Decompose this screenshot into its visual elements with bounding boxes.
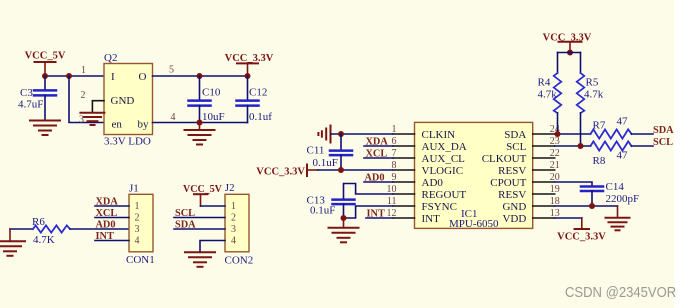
svg-text:0.1uF: 0.1uF xyxy=(313,157,338,169)
svg-text:0.1uf: 0.1uf xyxy=(249,111,272,123)
node junction C12 top xyxy=(245,73,251,79)
svg-text:en: en xyxy=(112,118,123,130)
svg-text:INT: INT xyxy=(422,213,441,225)
node junction at pullup split xyxy=(567,50,573,56)
svg-text:XDA: XDA xyxy=(366,136,389,147)
svg-text:R6: R6 xyxy=(32,216,45,228)
wire + net label SDA (J2-3) xyxy=(174,228,225,230)
svg-text:2200pF: 2200pF xyxy=(606,193,640,205)
resistor R4 xyxy=(538,53,562,135)
ground at R6 xyxy=(0,229,25,256)
IC pin numbers left xyxy=(387,124,397,219)
svg-text:3: 3 xyxy=(79,114,84,125)
svg-text:J2: J2 xyxy=(225,182,235,194)
svg-text:CLKOUT: CLKOUT xyxy=(482,153,527,165)
power symbol VCC_5V (top-left) xyxy=(35,62,56,76)
svg-text:C11: C11 xyxy=(307,144,325,156)
svg-text:VCC_3.3V: VCC_3.3V xyxy=(256,166,305,177)
svg-text:AUX_DA: AUX_DA xyxy=(422,141,467,153)
svg-text:4: 4 xyxy=(231,235,236,246)
svg-text:J1: J1 xyxy=(129,182,139,194)
svg-text:AD0: AD0 xyxy=(422,177,444,189)
power symbol VCC_3.3V (top right) xyxy=(559,42,582,53)
power symbol VCC_3.3V (below VDD) xyxy=(575,218,590,229)
svg-text:9: 9 xyxy=(392,172,397,183)
svg-text:6: 6 xyxy=(392,136,397,147)
svg-text:RESV: RESV xyxy=(498,189,526,201)
svg-text:4: 4 xyxy=(171,112,176,123)
capacitor C12 xyxy=(237,76,273,123)
resistor R5 xyxy=(577,53,604,147)
node junction at C3 xyxy=(42,73,48,79)
wire VCC_5V to Q2 pin1 xyxy=(45,75,104,77)
svg-text:4.7k: 4.7k xyxy=(538,89,558,101)
svg-text:19: 19 xyxy=(550,184,560,195)
svg-text:Q2: Q2 xyxy=(104,52,117,64)
svg-text:RESV: RESV xyxy=(498,165,526,177)
wire + net label INT (J1-4) xyxy=(95,240,129,242)
connector J1 xyxy=(129,194,153,252)
svg-text:SCL: SCL xyxy=(175,208,195,219)
svg-text:22: 22 xyxy=(550,148,560,159)
svg-text:O: O xyxy=(139,71,147,83)
svg-text:CON1: CON1 xyxy=(126,254,155,266)
svg-text:2: 2 xyxy=(81,90,86,101)
ground under C13 xyxy=(329,218,359,242)
svg-text:C12: C12 xyxy=(249,87,267,99)
svg-text:C10: C10 xyxy=(202,87,221,99)
capacitor C13 xyxy=(307,194,355,218)
svg-text:MPU-6050: MPU-6050 xyxy=(449,218,499,230)
svg-text:1: 1 xyxy=(231,201,236,212)
svg-text:47: 47 xyxy=(617,149,629,161)
pin Q2-2 GND stub xyxy=(92,101,104,113)
svg-text:12: 12 xyxy=(387,208,397,219)
wire GND row xyxy=(555,205,618,207)
node junction C11 top xyxy=(338,131,344,137)
svg-text:3: 3 xyxy=(135,224,140,235)
IC pin names left xyxy=(422,129,467,225)
svg-text:XDA: XDA xyxy=(96,196,119,207)
svg-text:2: 2 xyxy=(135,212,140,223)
IC pin stubs left xyxy=(393,134,415,218)
svg-text:C14: C14 xyxy=(606,181,625,193)
svg-text:3: 3 xyxy=(231,224,236,235)
svg-text:GND: GND xyxy=(111,95,135,107)
wire VDD row xyxy=(555,217,582,219)
wire SCL row xyxy=(555,145,591,147)
svg-text:10uF: 10uF xyxy=(202,111,225,123)
svg-text:18: 18 xyxy=(550,196,560,207)
svg-text:20: 20 xyxy=(550,172,560,183)
svg-text:C3: C3 xyxy=(20,87,33,99)
node junction C13 bottom xyxy=(341,215,347,221)
wire CPOUT to C14 xyxy=(555,182,592,186)
wire + net label INT (INT) xyxy=(366,217,393,219)
power symbol VCC_3.3V (above C12) xyxy=(237,63,258,76)
svg-text:XCL: XCL xyxy=(366,148,388,159)
wire + net label XDA (AUX_DA) xyxy=(364,145,393,147)
ground at J2 xyxy=(185,252,215,266)
svg-text:I: I xyxy=(111,71,115,83)
svg-text:11: 11 xyxy=(387,196,397,207)
node junction C11 bottom xyxy=(338,167,344,173)
wire bottom rail (by / caps) xyxy=(153,122,248,124)
wire R6 to J1 pin3 xyxy=(70,228,129,230)
svg-text:INT: INT xyxy=(367,208,385,219)
svg-text:1: 1 xyxy=(392,124,397,135)
svg-text:4.7k: 4.7k xyxy=(584,89,604,101)
svg-text:AD0: AD0 xyxy=(96,219,116,230)
svg-text:GND: GND xyxy=(502,201,526,213)
ground under C3 xyxy=(30,121,60,136)
resistor R8 xyxy=(591,141,632,166)
resistor R7 xyxy=(591,116,632,139)
svg-text:4.7uF: 4.7uF xyxy=(18,99,43,111)
wire FSYNC hook xyxy=(344,206,394,218)
svg-text:7: 7 xyxy=(392,148,397,159)
wire to SCL label xyxy=(632,145,654,147)
power symbol VCC_5V (at J2) xyxy=(194,194,208,206)
wire + net label SCL (J2-2) xyxy=(174,217,225,219)
node junction at en branch xyxy=(66,73,72,79)
wire J2-4 to ground xyxy=(200,241,225,253)
svg-text:R4: R4 xyxy=(538,77,551,89)
ground under C10 xyxy=(185,123,215,145)
node junction R4/SDA xyxy=(555,131,561,137)
wire Q2 output rail xyxy=(153,75,248,77)
svg-text:VCC_3.3V: VCC_3.3V xyxy=(225,53,274,64)
svg-text:1: 1 xyxy=(81,65,86,76)
node junction R5/SCL xyxy=(578,143,584,149)
IC pin numbers right xyxy=(550,124,560,219)
svg-text:0.1uF: 0.1uF xyxy=(310,205,335,217)
wire pullup crossbar xyxy=(558,52,581,54)
ground at Q2 pin2 xyxy=(80,113,104,125)
ground at GND row xyxy=(606,206,630,230)
ground (rotated) at CLKIN xyxy=(318,126,330,143)
svg-text:VCC_3.3V: VCC_3.3V xyxy=(543,32,592,43)
node junction C14/GND xyxy=(589,203,595,209)
wire to SDA label xyxy=(632,133,654,135)
capacitor C10 xyxy=(189,76,225,123)
capacitor C3 xyxy=(18,76,56,120)
svg-text:13: 13 xyxy=(550,208,560,219)
svg-text:4: 4 xyxy=(135,235,140,246)
wire en branch xyxy=(69,76,104,123)
wire CLKIN row xyxy=(331,133,394,135)
wire + net label XCL (J1-2) xyxy=(95,217,129,219)
svg-text:VDD: VDD xyxy=(502,213,526,225)
regulator Q2 xyxy=(104,64,153,135)
svg-text:SCL: SCL xyxy=(653,137,673,148)
svg-text:R8: R8 xyxy=(593,155,606,167)
wire + net label XCL (AUX_CL) xyxy=(364,157,393,159)
wire + net label AD0 (AD0) xyxy=(364,181,393,183)
svg-text:4.7K: 4.7K xyxy=(33,234,55,246)
svg-text:FSYNC: FSYNC xyxy=(422,201,457,213)
svg-text:AUX_CL: AUX_CL xyxy=(422,153,466,165)
svg-text:VCC_3.3V: VCC_3.3V xyxy=(557,232,606,243)
svg-text:CPOUT: CPOUT xyxy=(490,177,526,189)
svg-text:2: 2 xyxy=(231,212,236,223)
capacitor C14 xyxy=(581,181,639,206)
svg-text:SCL: SCL xyxy=(506,141,526,153)
svg-text:CLKIN: CLKIN xyxy=(422,129,456,141)
node junction C10 top xyxy=(197,73,203,79)
node junction C10 bottom xyxy=(197,120,203,126)
svg-text:SDA: SDA xyxy=(504,129,526,141)
wire SDA row xyxy=(555,133,591,135)
svg-text:47: 47 xyxy=(617,116,629,128)
svg-text:XCL: XCL xyxy=(96,208,118,219)
svg-text:VCC_5V: VCC_5V xyxy=(25,51,66,62)
svg-text:3.3V LDO: 3.3V LDO xyxy=(104,136,151,148)
resistor R6 xyxy=(10,216,70,246)
svg-text:10: 10 xyxy=(387,184,397,195)
IC IC1 MPU-6050 xyxy=(415,122,533,228)
capacitor C11 xyxy=(307,134,353,170)
svg-text:SDA: SDA xyxy=(175,219,196,230)
power symbol VCC_3.3V (left, at VLOGIC) xyxy=(307,165,318,177)
svg-text:AD0: AD0 xyxy=(365,172,385,183)
svg-text:VLOGIC: VLOGIC xyxy=(422,165,464,177)
svg-text:5: 5 xyxy=(169,65,174,76)
wire REGOUT hook xyxy=(344,184,394,200)
svg-text:REGOUT: REGOUT xyxy=(422,189,467,201)
svg-text:1: 1 xyxy=(135,201,140,212)
svg-text:8: 8 xyxy=(392,160,397,171)
IC pin stubs right xyxy=(533,134,555,218)
wire VLOGIC row xyxy=(318,169,393,171)
IC pin names right xyxy=(482,129,527,225)
svg-text:INT: INT xyxy=(96,231,114,242)
svg-text:23: 23 xyxy=(550,136,560,147)
svg-text:R7: R7 xyxy=(593,119,606,131)
wire VCC to J2-1 xyxy=(201,205,226,207)
svg-text:CON2: CON2 xyxy=(225,255,254,267)
svg-text:VCC_5V: VCC_5V xyxy=(183,184,223,195)
svg-text:SDA: SDA xyxy=(653,125,674,136)
svg-text:by: by xyxy=(138,118,150,130)
svg-text:21: 21 xyxy=(550,160,560,171)
connector J2 xyxy=(225,194,249,252)
wire + net label XDA (J1-1) xyxy=(95,205,129,207)
svg-text:R5: R5 xyxy=(586,77,599,89)
